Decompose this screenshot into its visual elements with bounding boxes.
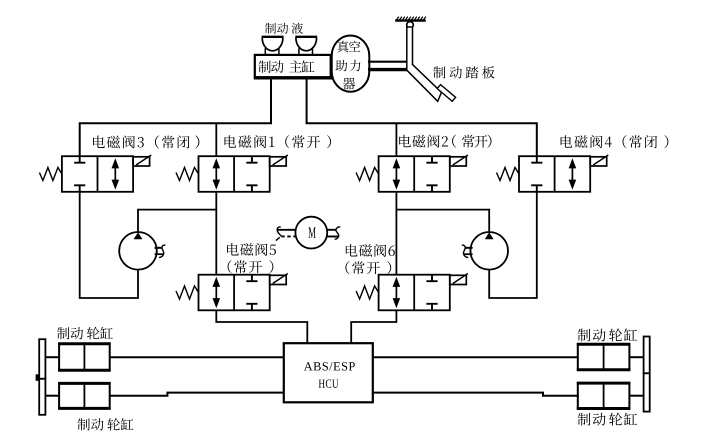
wire left pump outlet <box>138 210 216 232</box>
motor right shaft <box>327 227 340 239</box>
label 电磁阀2（常开） <box>399 135 448 148</box>
stub top-left <box>45 356 59 358</box>
wire HCU left-top to wheel cylinder <box>110 356 284 358</box>
solenoid valve V5 normally-open <box>176 274 288 311</box>
label 电磁阀4（常闭） <box>561 135 669 148</box>
solenoid valve V3 normally-closed <box>39 155 151 192</box>
reservoir cup 2 <box>295 37 317 55</box>
brake disc left <box>36 339 46 415</box>
hydraulic pump left <box>119 232 165 270</box>
stub bottom-right <box>629 395 643 397</box>
wire right pump outlet <box>396 210 489 232</box>
stub top-right <box>629 356 643 358</box>
booster push rod <box>368 62 407 70</box>
pedal plate <box>437 85 455 102</box>
solenoid valve V4 normally-closed <box>497 155 609 192</box>
wire valve4 to right pump inlet <box>489 192 537 298</box>
pedal mount hatching <box>395 17 426 21</box>
motor left shaft <box>276 227 296 241</box>
master cylinder box 制动主缸 <box>254 55 344 78</box>
label 电磁阀3（常闭） <box>93 135 199 148</box>
solenoid valve V6 normally-open <box>356 274 468 311</box>
label 制动轮缸 top-right <box>578 328 637 341</box>
wire HCU left-bottom to wheel cylinder <box>109 393 284 396</box>
wire valve1 to valve5 <box>215 192 217 275</box>
pedal lever <box>407 27 442 101</box>
label （常开） v6 <box>345 261 391 274</box>
wire valve6 to HCU <box>351 310 396 343</box>
HCU box ABS/ESP <box>284 343 373 402</box>
label 电磁阀1（常开） <box>224 135 331 148</box>
solenoid valve V1 normally-open <box>176 155 288 192</box>
wire HCU right-bottom to wheel cylinder <box>373 393 579 396</box>
wire HCU right-top to wheel cylinder <box>373 356 578 358</box>
wheel cylinder bottom-right <box>577 383 631 408</box>
label 制动轮缸 bottom-right <box>578 413 637 426</box>
wheel cylinder bottom-left <box>58 383 111 408</box>
wheel cylinder top-right <box>577 344 631 369</box>
stub bottom-left <box>45 395 59 397</box>
wire valve5 to HCU <box>216 310 307 343</box>
brake disc right <box>644 337 650 412</box>
label brake-fluid 制动液 <box>265 23 303 34</box>
wire valve2 feed <box>395 123 397 156</box>
label （常开） v5 <box>228 260 274 273</box>
pedal pivot <box>407 22 414 29</box>
hydraulic pump right <box>462 232 508 270</box>
label brake-pedal 制动踏板 <box>433 66 495 79</box>
label 制动轮缸 bottom-left <box>78 418 134 431</box>
wire valve2 to valve6 <box>395 192 397 275</box>
wire MC left output <box>80 78 271 157</box>
label 制动轮缸 top-left <box>57 327 113 340</box>
wheel cylinder top-left <box>58 344 111 370</box>
wire valve1 feed <box>215 123 217 156</box>
label 电磁阀5 <box>227 243 276 256</box>
wire valve3 to left pump inlet <box>80 192 138 298</box>
solenoid valve V2 normally-open <box>356 155 468 192</box>
vacuum booster 真空助力器 <box>332 36 370 92</box>
motor M circle <box>295 217 327 249</box>
wire MC right output <box>307 78 537 157</box>
label 电磁阀6 <box>346 244 395 257</box>
reservoir cup 1 <box>262 37 284 55</box>
